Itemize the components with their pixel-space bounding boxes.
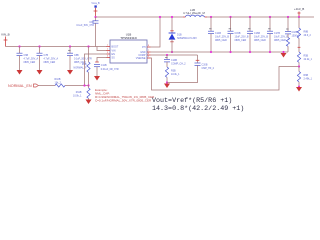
diode D1 catch — [169, 17, 198, 52]
node C7 — [38, 45, 40, 47]
output capacitor C14 — [208, 16, 229, 53]
capacitor C9 boot — [76, 17, 98, 47]
svg-text:0805_CER: 0805_CER — [274, 39, 286, 42]
pin 8 PH — [147, 46, 151, 48]
svg-text:C7B: C7B — [44, 54, 49, 57]
capacitor C11 soft start — [94, 62, 119, 76]
pin 2 VIN — [107, 50, 111, 52]
svg-text:0.01uF_0R_X7R: 0.01uF_0R_X7R — [101, 68, 119, 71]
svg-text:10k_2: 10k_2 — [55, 81, 62, 84]
svg-text:Vout=Vref*(R5/R6 +1): Vout=Vref*(R5/R6 +1) — [152, 97, 232, 105]
svg-text:0805_CER: 0805_CER — [24, 61, 36, 64]
ground C8 — [67, 70, 73, 75]
capacitor C20 comp hf — [195, 55, 215, 70]
svg-text:C15B: C15B — [235, 32, 241, 35]
svg-text:0805_CER: 0805_CER — [235, 39, 247, 42]
svg-text:10uF_25V_B: 10uF_25V_B — [235, 36, 249, 39]
svg-text:10.0k_1: 10.0k_1 — [73, 94, 82, 97]
off-page connector NORMAL_EN — [8, 84, 38, 88]
svg-text:COMP_CH_2: COMP_CH_2 — [171, 63, 186, 66]
capacitor C6 — [17, 47, 39, 71]
svg-text:R11B: R11B — [76, 91, 82, 94]
formula note — [152, 97, 244, 113]
svg-text:VSENSE: VSENSE — [136, 57, 146, 60]
resistor R7 snubber — [286, 38, 289, 53]
svg-text:10.0k_1: 10.0k_1 — [171, 73, 180, 76]
power pin VIN — [4, 37, 8, 47]
svg-text:R3B: R3B — [171, 70, 176, 73]
capacitor C7 — [37, 47, 59, 71]
node divider top — [298, 16, 300, 18]
svg-text:R8B: R8B — [304, 31, 309, 34]
svg-text:4.7uF_50V_A: 4.7uF_50V_A — [44, 58, 59, 61]
svg-text:R5B: R5B — [304, 55, 309, 58]
svg-text:14.3=0.8*(42.2/2.49 +1): 14.3=0.8*(42.2/2.49 +1) — [152, 105, 244, 113]
node R9 top — [87, 45, 89, 47]
ground R6 — [296, 87, 302, 92]
svg-text:VIN_B: VIN_B — [1, 33, 10, 37]
wire COMP — [151, 54, 198, 56]
ground R11 — [86, 100, 92, 105]
svg-text:NORMAL_EN: NORMAL_EN — [8, 84, 32, 88]
svg-text:0.1uF_50V_X7R: 0.1uF_50V_X7R — [76, 24, 94, 27]
resistor R11 pulldown — [73, 86, 90, 100]
svg-text:C=0.1uF/NORMAL_50V_X7R_0805_CE: C=0.1uF/NORMAL_50V_X7R_0805_CER — [95, 99, 152, 103]
capacitor C19 comp — [164, 55, 186, 67]
resistor R3 comp — [165, 67, 180, 83]
svg-text:CMP_HF_2: CMP_HF_2 — [202, 67, 215, 70]
node C6 — [18, 45, 20, 47]
node R6 bottom — [298, 86, 300, 88]
wire VIN bus — [6, 46, 108, 48]
svg-text:C11B: C11B — [101, 64, 107, 67]
ground C11 — [94, 76, 100, 81]
wire NORMAL_EN — [39, 85, 56, 87]
svg-text:SDM2540-0.5-30V: SDM2540-0.5-30V — [177, 37, 197, 40]
output capacitor C17 — [267, 16, 288, 53]
wire GND bus — [151, 51, 289, 53]
wire VSENSE feedback — [151, 58, 300, 90]
svg-text:10uF_25V_B: 10uF_25V_B — [274, 36, 288, 39]
inductor L1 — [183, 8, 207, 17]
power flag VCCA — [91, 2, 100, 17]
note text red — [95, 88, 155, 103]
wire comp loop to chain bottom — [167, 65, 198, 82]
node EN join — [83, 84, 85, 86]
svg-text:10uF_25V_B: 10uF_25V_B — [215, 36, 229, 39]
svg-text:10uF_25V_B: 10uF_25V_B — [254, 36, 268, 39]
wire SS to C11 — [97, 58, 107, 63]
resistor R8 sense — [297, 17, 311, 52]
node top bus at boot cap — [94, 16, 96, 18]
ground comp — [164, 84, 170, 89]
pin 3 EN — [107, 53, 111, 55]
output capacitor C16 — [247, 16, 268, 53]
node diode top — [171, 16, 173, 18]
svg-text:42.2k_1: 42.2k_1 — [304, 58, 313, 61]
resistor R5 divider top — [297, 52, 312, 67]
ground GND bus — [282, 51, 284, 53]
svg-text:SS: SS — [112, 56, 116, 59]
svg-text:R6B: R6B — [304, 74, 309, 77]
wire jog to VIN pin — [97, 47, 107, 51]
resistor R10 series EN — [55, 78, 66, 87]
node PH bus — [159, 16, 161, 18]
svg-text:C17B: C17B — [274, 32, 280, 35]
node comp chain top — [166, 54, 168, 56]
power pin +3v3 — [298, 12, 301, 18]
node C8 — [69, 45, 71, 47]
svg-text:TPS54331D: TPS54331D — [120, 36, 137, 40]
wire top bus left (VIN to inductor) — [96, 16, 184, 18]
svg-text:D1B: D1B — [177, 34, 182, 37]
svg-text:C6B: C6B — [24, 54, 29, 57]
svg-text:4.7uH_Wuerth_M: 4.7uH_Wuerth_M — [183, 11, 206, 15]
pin 4 SS — [107, 57, 111, 59]
wire EN to pulldown — [85, 54, 108, 86]
wire top bus right (VOUT) — [207, 16, 314, 18]
node R11 top — [87, 84, 89, 86]
resistor R9 VIN-EN — [73, 47, 90, 86]
capacitor C18 snubber — [285, 16, 300, 38]
svg-text:C20B: C20B — [202, 64, 208, 67]
svg-text:C14B: C14B — [215, 32, 221, 35]
svg-text:0805_CER: 0805_CER — [254, 39, 266, 42]
node comp chain bottom — [166, 81, 168, 83]
node diode anode on gnd wire — [171, 51, 173, 53]
resistor R6 divider bottom — [297, 67, 312, 87]
svg-text:Vcca_B: Vcca_B — [91, 2, 100, 5]
svg-text:0805_CER: 0805_CER — [215, 39, 227, 42]
pin 5 VSENSE — [147, 57, 151, 59]
svg-text:C16B: C16B — [254, 32, 260, 35]
wire PH up to bus — [151, 17, 161, 47]
svg-text:49.9_2: 49.9_2 — [304, 34, 312, 37]
svg-text:NORMAL_F: NORMAL_F — [73, 67, 87, 70]
svg-text:C19B: C19B — [171, 59, 177, 62]
wire after R10 — [65, 85, 89, 87]
svg-text:C8B: C8B — [74, 54, 79, 57]
svg-text:0805_CER: 0805_CER — [44, 61, 56, 64]
pin 7 GND — [147, 51, 151, 53]
IC U1 TPS54331 box — [110, 33, 147, 63]
node divider mid — [298, 65, 300, 67]
svg-text:BOOT: BOOT — [112, 46, 119, 49]
svg-text:4.7uF_50V_A: 4.7uF_50V_A — [24, 58, 39, 61]
pin tick R5 top — [298, 46, 301, 48]
svg-text:PH: PH — [142, 46, 146, 49]
ground C7 — [37, 70, 43, 75]
svg-text:+3v3_B: +3v3_B — [294, 7, 304, 11]
output capacitor C15 — [228, 16, 249, 53]
pin 1 BOOT — [107, 46, 111, 48]
ground C6 — [17, 70, 23, 75]
svg-text:0.1uF_50V_X7R: 0.1uF_50V_X7R — [74, 58, 92, 61]
capacitor C8 — [67, 47, 92, 71]
svg-text:C18B: C18B — [292, 31, 298, 34]
pin 6 COMP — [147, 54, 151, 56]
svg-text:2.49k_1: 2.49k_1 — [304, 78, 313, 81]
